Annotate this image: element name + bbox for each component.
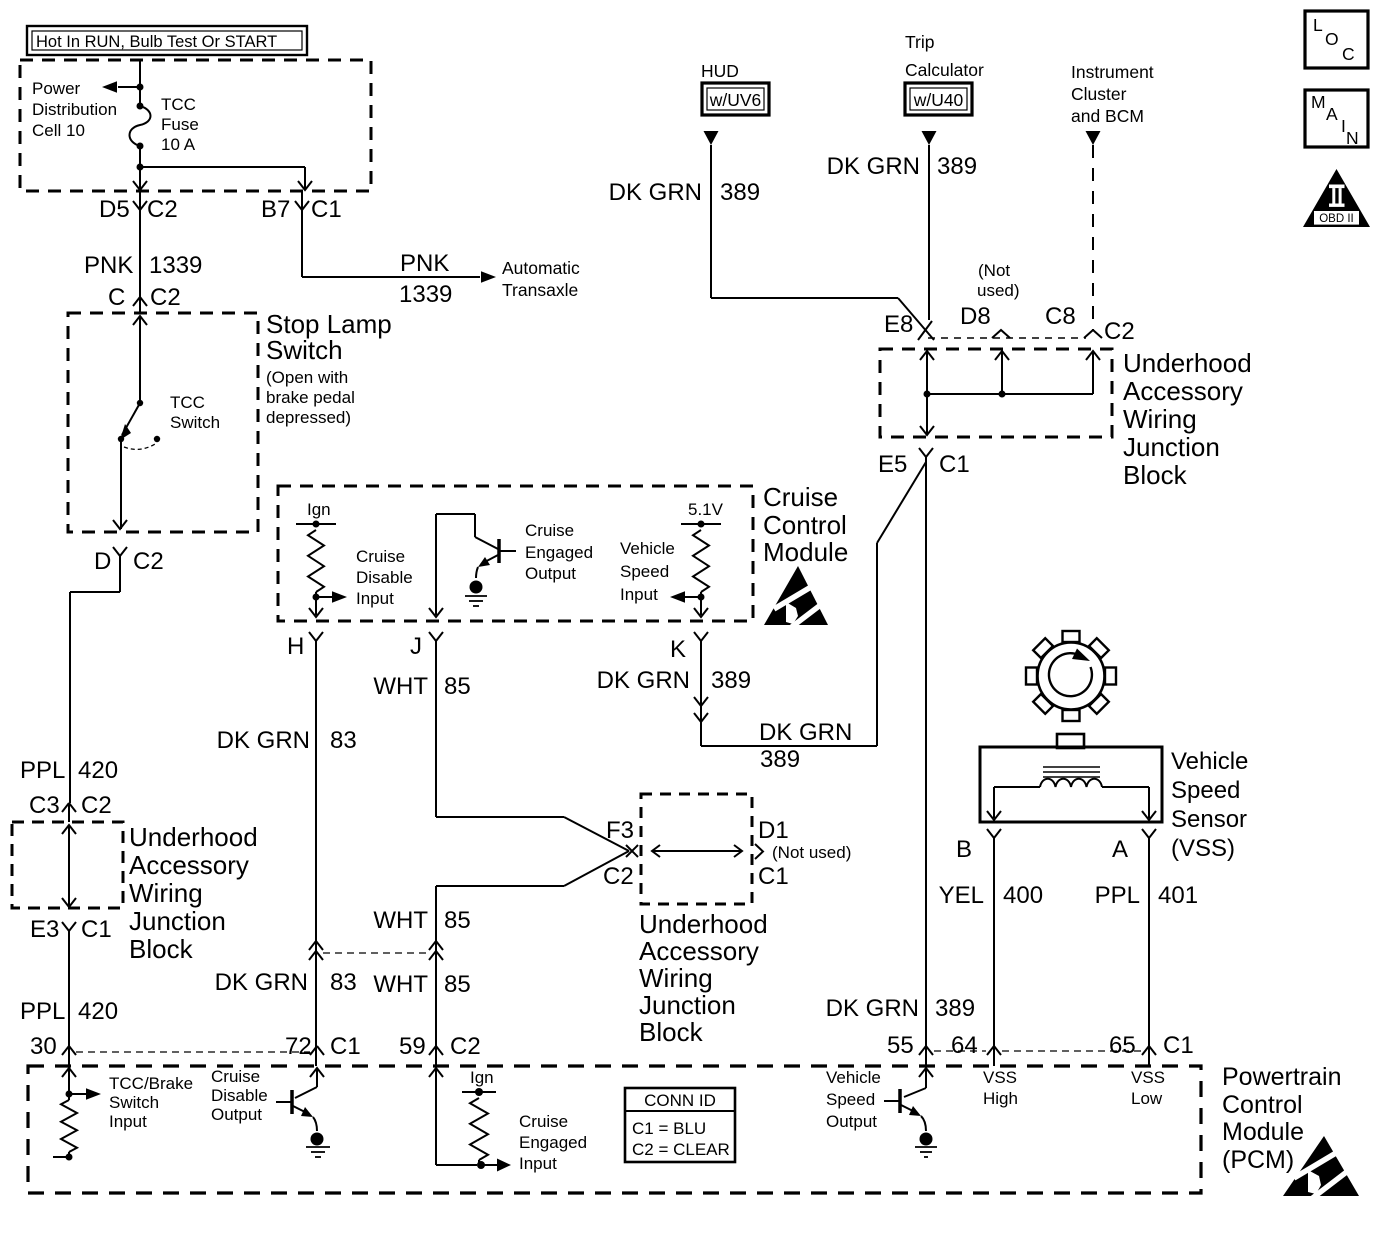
svg-text:389: 389 bbox=[760, 746, 800, 773]
svg-text:C1: C1 bbox=[311, 196, 342, 223]
svg-text:WHT: WHT bbox=[373, 971, 428, 998]
svg-text:Switch: Switch bbox=[170, 413, 220, 432]
svg-text:H: H bbox=[287, 633, 304, 660]
svg-text:389: 389 bbox=[720, 179, 760, 206]
svg-text:Low: Low bbox=[1131, 1089, 1163, 1108]
svg-text:K: K bbox=[670, 636, 686, 663]
svg-text:DK GRN: DK GRN bbox=[597, 667, 690, 694]
svg-text:10 A: 10 A bbox=[161, 135, 196, 154]
svg-text:64: 64 bbox=[951, 1032, 978, 1059]
svg-text:Engaged: Engaged bbox=[525, 543, 593, 562]
svg-text:Engaged: Engaged bbox=[519, 1133, 587, 1152]
svg-text:PNK: PNK bbox=[84, 252, 133, 279]
svg-text:Speed: Speed bbox=[826, 1090, 875, 1109]
svg-text:1339: 1339 bbox=[399, 281, 452, 308]
svg-text:D1: D1 bbox=[758, 817, 789, 844]
svg-text:(VSS): (VSS) bbox=[1171, 835, 1235, 862]
svg-text:E5: E5 bbox=[878, 451, 907, 478]
svg-text:Speed: Speed bbox=[620, 562, 669, 581]
svg-text:C2: C2 bbox=[147, 196, 178, 223]
svg-text:High: High bbox=[983, 1089, 1018, 1108]
svg-text:30: 30 bbox=[30, 1033, 57, 1060]
svg-text:85: 85 bbox=[444, 971, 471, 998]
svg-text:CONN ID: CONN ID bbox=[644, 1091, 716, 1110]
svg-text:Output: Output bbox=[211, 1105, 262, 1124]
svg-text:C1: C1 bbox=[939, 451, 970, 478]
svg-text:C: C bbox=[1342, 44, 1355, 64]
svg-text:389: 389 bbox=[937, 153, 977, 180]
svg-text:Underhood: Underhood bbox=[639, 909, 768, 939]
svg-text:83: 83 bbox=[330, 969, 357, 996]
svg-text:Junction: Junction bbox=[1123, 432, 1220, 462]
svg-text:Power: Power bbox=[32, 79, 81, 98]
svg-text:1339: 1339 bbox=[149, 252, 202, 279]
svg-text:Cruise: Cruise bbox=[211, 1067, 260, 1086]
svg-text:C2 = CLEAR: C2 = CLEAR bbox=[632, 1140, 730, 1159]
svg-text:C: C bbox=[108, 284, 125, 311]
svg-text:used): used) bbox=[977, 281, 1020, 300]
svg-text:Cluster: Cluster bbox=[1071, 84, 1127, 104]
svg-text:Block: Block bbox=[1123, 460, 1188, 490]
svg-text:Wiring: Wiring bbox=[129, 878, 203, 908]
svg-text:401: 401 bbox=[1158, 882, 1198, 909]
svg-text:DK GRN: DK GRN bbox=[759, 719, 852, 746]
svg-text:Disable: Disable bbox=[211, 1086, 268, 1105]
svg-text:DK GRN: DK GRN bbox=[827, 153, 920, 180]
svg-text:Junction: Junction bbox=[129, 906, 226, 936]
svg-text:C2: C2 bbox=[450, 1033, 481, 1060]
svg-text:Vehicle: Vehicle bbox=[620, 539, 675, 558]
svg-text:(Not: (Not bbox=[978, 261, 1010, 280]
svg-text:Fuse: Fuse bbox=[161, 115, 199, 134]
svg-text:Trip: Trip bbox=[905, 32, 935, 52]
svg-text:Cruise: Cruise bbox=[356, 547, 405, 566]
svg-text:brake pedal: brake pedal bbox=[266, 388, 355, 407]
svg-text:Hot In RUN, Bulb Test Or START: Hot In RUN, Bulb Test Or START bbox=[36, 33, 277, 51]
svg-text:83: 83 bbox=[330, 727, 357, 754]
svg-text:Speed: Speed bbox=[1171, 777, 1240, 804]
svg-text:Sensor: Sensor bbox=[1171, 806, 1247, 833]
svg-text:389: 389 bbox=[711, 667, 751, 694]
svg-text:C3: C3 bbox=[29, 792, 60, 819]
svg-text:Cell 10: Cell 10 bbox=[32, 121, 85, 140]
svg-text:Accessory: Accessory bbox=[129, 850, 249, 880]
svg-text:Accessory: Accessory bbox=[1123, 376, 1243, 406]
svg-text:F3: F3 bbox=[606, 817, 634, 844]
svg-text:Automatic: Automatic bbox=[502, 258, 580, 278]
svg-text:A: A bbox=[1112, 836, 1128, 863]
svg-text:Wiring: Wiring bbox=[1123, 404, 1197, 434]
svg-text:Input: Input bbox=[519, 1154, 557, 1173]
svg-text:depressed): depressed) bbox=[266, 408, 351, 427]
svg-text:C2: C2 bbox=[81, 792, 112, 819]
svg-text:TCC: TCC bbox=[161, 95, 196, 114]
svg-text:PPL: PPL bbox=[1095, 882, 1140, 909]
svg-text:420: 420 bbox=[78, 757, 118, 784]
svg-text:Disable: Disable bbox=[356, 568, 413, 587]
svg-text:D5: D5 bbox=[99, 196, 130, 223]
svg-text:B7: B7 bbox=[261, 196, 290, 223]
svg-text:Input: Input bbox=[356, 589, 394, 608]
svg-text:55: 55 bbox=[887, 1032, 914, 1059]
svg-text:Instrument: Instrument bbox=[1071, 62, 1154, 82]
svg-text:B: B bbox=[956, 836, 972, 863]
svg-text:WHT: WHT bbox=[373, 907, 428, 934]
svg-text:59: 59 bbox=[399, 1033, 426, 1060]
svg-text:85: 85 bbox=[444, 907, 471, 934]
svg-text:VSS: VSS bbox=[1131, 1068, 1165, 1087]
svg-text:(Open with: (Open with bbox=[266, 368, 348, 387]
svg-text:Wiring: Wiring bbox=[639, 963, 713, 993]
svg-text:C2: C2 bbox=[133, 548, 164, 575]
svg-text:HUD: HUD bbox=[701, 61, 739, 81]
svg-text:C1: C1 bbox=[1163, 1032, 1194, 1059]
svg-text:PNK: PNK bbox=[400, 250, 449, 277]
svg-text:YEL: YEL bbox=[939, 882, 984, 909]
svg-text:389: 389 bbox=[935, 995, 975, 1022]
svg-text:D8: D8 bbox=[960, 303, 991, 330]
svg-text:Switch: Switch bbox=[266, 335, 343, 365]
svg-text:400: 400 bbox=[1003, 882, 1043, 909]
svg-text:Ign: Ign bbox=[470, 1068, 494, 1087]
svg-text:Module: Module bbox=[763, 537, 848, 567]
svg-text:Cruise: Cruise bbox=[763, 482, 838, 512]
svg-text:J: J bbox=[410, 633, 422, 660]
svg-text:Ign: Ign bbox=[307, 500, 331, 519]
svg-text:Block: Block bbox=[129, 934, 194, 964]
svg-text:Calculator: Calculator bbox=[905, 60, 984, 80]
svg-text:w/UV6: w/UV6 bbox=[709, 90, 762, 110]
svg-text:Switch: Switch bbox=[109, 1093, 159, 1112]
svg-text:VSS: VSS bbox=[983, 1068, 1017, 1087]
svg-text:65: 65 bbox=[1109, 1032, 1136, 1059]
svg-text:w/U40: w/U40 bbox=[913, 90, 964, 110]
svg-text:420: 420 bbox=[78, 998, 118, 1025]
svg-text:OBD II: OBD II bbox=[1319, 213, 1354, 225]
svg-text:WHT: WHT bbox=[373, 673, 428, 700]
svg-text:E3: E3 bbox=[30, 916, 59, 943]
svg-text:and BCM: and BCM bbox=[1071, 106, 1144, 126]
svg-text:72: 72 bbox=[285, 1033, 312, 1060]
svg-text:Control: Control bbox=[763, 510, 847, 540]
svg-text:L: L bbox=[1313, 15, 1323, 35]
svg-text:TCC/Brake: TCC/Brake bbox=[109, 1074, 193, 1093]
svg-text:PPL: PPL bbox=[20, 757, 65, 784]
svg-text:Cruise: Cruise bbox=[519, 1112, 568, 1131]
svg-text:Input: Input bbox=[109, 1112, 147, 1131]
svg-text:Underhood: Underhood bbox=[1123, 348, 1252, 378]
svg-text:C1 = BLU: C1 = BLU bbox=[632, 1119, 706, 1138]
svg-text:Input: Input bbox=[620, 585, 658, 604]
svg-text:C2: C2 bbox=[603, 863, 634, 890]
svg-text:Powertrain: Powertrain bbox=[1222, 1063, 1342, 1091]
svg-text:Accessory: Accessory bbox=[639, 936, 759, 966]
svg-text:(PCM): (PCM) bbox=[1222, 1146, 1294, 1174]
svg-text:D: D bbox=[94, 548, 111, 575]
svg-text:E8: E8 bbox=[884, 311, 913, 338]
svg-text:O: O bbox=[1325, 29, 1339, 49]
svg-text:DK GRN: DK GRN bbox=[217, 727, 310, 754]
svg-text:Distribution: Distribution bbox=[32, 100, 117, 119]
svg-text:Underhood: Underhood bbox=[129, 822, 258, 852]
svg-text:PPL: PPL bbox=[20, 998, 65, 1025]
svg-text:5.1V: 5.1V bbox=[688, 500, 724, 519]
svg-text:Module: Module bbox=[1222, 1118, 1304, 1146]
svg-text:Output: Output bbox=[826, 1112, 877, 1131]
svg-text:Block: Block bbox=[639, 1017, 704, 1047]
svg-text:Output: Output bbox=[525, 564, 576, 583]
svg-text:DK GRN: DK GRN bbox=[215, 969, 308, 996]
svg-text:N: N bbox=[1346, 128, 1359, 148]
svg-text:DK GRN: DK GRN bbox=[826, 995, 919, 1022]
svg-text:85: 85 bbox=[444, 673, 471, 700]
svg-text:TCC: TCC bbox=[170, 393, 205, 412]
svg-text:A: A bbox=[1326, 104, 1338, 124]
svg-text:C1: C1 bbox=[758, 863, 789, 890]
svg-text:C2: C2 bbox=[1104, 318, 1135, 345]
svg-text:C1: C1 bbox=[330, 1033, 361, 1060]
svg-text:(Not used): (Not used) bbox=[772, 843, 851, 862]
svg-text:DK GRN: DK GRN bbox=[609, 179, 702, 206]
svg-text:M: M bbox=[1311, 92, 1326, 112]
svg-text:Cruise: Cruise bbox=[525, 521, 574, 540]
svg-text:Junction: Junction bbox=[639, 990, 736, 1020]
svg-text:Control: Control bbox=[1222, 1091, 1303, 1119]
svg-text:C2: C2 bbox=[150, 284, 181, 311]
svg-text:Vehicle: Vehicle bbox=[826, 1068, 881, 1087]
svg-text:Transaxle: Transaxle bbox=[502, 280, 578, 300]
svg-text:C8: C8 bbox=[1045, 303, 1076, 330]
svg-text:C1: C1 bbox=[81, 916, 112, 943]
svg-text:Vehicle: Vehicle bbox=[1171, 748, 1248, 775]
